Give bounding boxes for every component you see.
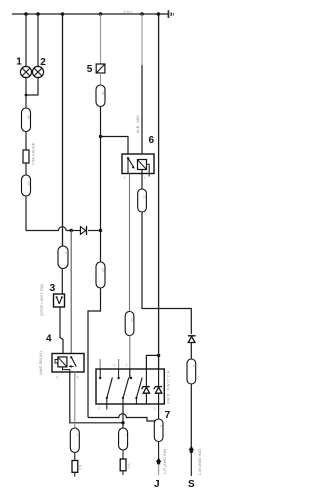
- svg-text:2 B: 2 B: [79, 464, 83, 470]
- arrow to J: [156, 458, 162, 462]
- svg-text:9: 9: [64, 252, 68, 254]
- svg-text:2: 2: [126, 364, 128, 368]
- wire relay6 coil drop gray part: [141, 14, 143, 65]
- svg-text:L-W (4WD IND): L-W (4WD IND): [198, 448, 202, 475]
- connector pill P5: [96, 262, 105, 288]
- connector pill P8 (J run): [154, 419, 163, 442]
- svg-text:5: 5: [77, 376, 79, 380]
- wire: [71, 230, 80, 232]
- wire: [158, 442, 160, 459]
- wire: [61, 269, 63, 295]
- node diode join: [99, 229, 102, 232]
- battery terminal symbol: [168, 10, 174, 18]
- svg-text:4: 4: [46, 334, 52, 345]
- svg-text:12: 12: [101, 268, 105, 272]
- svg-text:4: 4: [113, 364, 115, 368]
- wire diode run with hop over line3: [26, 227, 71, 231]
- wire: [25, 163, 27, 175]
- svg-text:2: 2: [40, 57, 46, 68]
- svg-text:2: 2: [144, 176, 146, 180]
- svg-text:5: 5: [87, 64, 93, 75]
- wire: [122, 450, 124, 459]
- svg-text:1: 1: [124, 176, 126, 180]
- svg-text:W-B , AM1: W-B , AM1: [136, 115, 140, 133]
- wire down to diode run: [25, 196, 27, 231]
- 4wd contact 2: [117, 369, 128, 404]
- svg-text:16: 16: [27, 115, 31, 119]
- node: relay coil tap: [140, 12, 144, 16]
- svg-text:(STOP LIGHT SW): (STOP LIGHT SW): [40, 283, 44, 316]
- svg-text:14: 14: [27, 181, 31, 185]
- diode D2: [188, 336, 196, 343]
- svg-text:7.5A GAUGE: 7.5A GAUGE: [32, 142, 36, 165]
- svg-text:8: 8: [192, 365, 196, 367]
- relay 6: [122, 154, 154, 177]
- wire: [122, 471, 124, 475]
- wire fuse5 drop (gray): [100, 14, 102, 64]
- svg-text:S: S: [188, 479, 195, 490]
- connector pill P4: [138, 189, 147, 212]
- wire lamp2 drop: [37, 14, 39, 67]
- svg-text:2: 2: [75, 434, 79, 436]
- svg-text:13: 13: [130, 318, 134, 322]
- svg-text:11: 11: [143, 195, 147, 199]
- node branch to relay6: [99, 135, 102, 138]
- wire: [74, 453, 76, 461]
- top power bus wire: [12, 13, 168, 15]
- connector pill P1: [22, 108, 31, 132]
- wire gray drop from diode-run node to relay4: [70, 231, 72, 358]
- svg-text:1: 1: [16, 56, 22, 67]
- wire long route to bottom J run: [88, 288, 101, 418]
- wire middle chain from 4wd box down: [122, 404, 124, 428]
- relay 4: [52, 354, 84, 373]
- wire relay4 left pin down and right: [70, 372, 122, 423]
- 4wd contact 1: [99, 369, 112, 410]
- wire relay6 coil bottom: [141, 170, 143, 190]
- svg-text:(4WD RELAY): (4WD RELAY): [39, 350, 43, 375]
- connector pill P10: [70, 428, 79, 453]
- svg-text:2 A: 2 A: [127, 463, 131, 469]
- wire switch feed vertical: [158, 14, 160, 369]
- connector pill P7: [125, 312, 134, 336]
- node: switch diode tap: [157, 12, 161, 16]
- node: fuse5 tap: [99, 12, 103, 16]
- svg-text:J: J: [154, 479, 160, 490]
- wire P7 to 4wd switch: [129, 336, 131, 379]
- svg-text:1: 1: [98, 406, 100, 410]
- node A junction on gray drop: [70, 229, 73, 232]
- connector pill P3: [96, 85, 105, 107]
- svg-text:L-R (4WD SW): L-R (4WD SW): [163, 448, 167, 474]
- fuse FC: [120, 459, 126, 471]
- wire lamp1 below: [25, 78, 27, 108]
- svg-text:3: 3: [56, 376, 58, 380]
- connector pill P11: [119, 428, 128, 450]
- svg-text:3: 3: [50, 283, 56, 294]
- node join middle chain: [121, 421, 124, 424]
- fuse 5 (square with diagonal): [96, 64, 105, 73]
- svg-text:10: 10: [101, 91, 105, 95]
- fuse FB: [72, 461, 78, 473]
- 4wd switch stub pin 1: [99, 359, 101, 369]
- svg-text:4WD SWITCH: 4WD SWITCH: [167, 370, 171, 404]
- wire: [190, 343, 192, 360]
- wire lamp1 drop: [25, 14, 27, 67]
- 4wd contact 3: [130, 369, 142, 404]
- switch 3 box: [54, 294, 65, 307]
- wire: [25, 132, 27, 151]
- wire: [190, 453, 192, 477]
- wire: [100, 231, 102, 263]
- wire branch to diode column 1: [146, 355, 158, 369]
- wire bottom run with hop: [88, 414, 156, 421]
- wire relay4 right pin down gray: [74, 372, 76, 428]
- wire: [100, 107, 102, 231]
- 4wd diode A: [142, 369, 150, 404]
- connector pill P9: [187, 359, 196, 384]
- wire line3 vertical: [62, 14, 64, 246]
- svg-text:7: 7: [124, 434, 128, 436]
- connector pill P2: [22, 175, 31, 196]
- svg-text:A M 1: A M 1: [124, 10, 133, 14]
- wire: [190, 384, 192, 447]
- wire from switch3 down with jog: [60, 307, 63, 354]
- svg-text:7: 7: [165, 410, 171, 421]
- 4WD switch box 7: [96, 369, 164, 404]
- wire relay6 contact pin down gray: [129, 174, 131, 312]
- arrow to S: [189, 446, 195, 450]
- node: lamp1 tap: [24, 12, 28, 16]
- node: lamp2 tap: [36, 12, 40, 16]
- wire relay6 to S diode: [142, 212, 191, 334]
- lamp 1: [20, 66, 31, 77]
- lamp 2: [32, 66, 43, 77]
- fuse F1: [23, 150, 29, 163]
- 4wd diode B: [154, 369, 162, 419]
- wire: [74, 472, 76, 476]
- wire relay6 coil drop black part: [141, 65, 143, 160]
- wire: [100, 73, 102, 85]
- wire lamp2 below joining lamp1 line: [26, 78, 38, 95]
- 4wd switch stub pin 2: [118, 359, 120, 369]
- wire: [158, 464, 160, 475]
- svg-text:2: 2: [154, 407, 156, 411]
- svg-text:5: 5: [159, 425, 163, 427]
- node: line3 tap: [61, 12, 65, 16]
- connector pill P6: [58, 246, 68, 269]
- wire: [88, 230, 101, 232]
- svg-text:6: 6: [149, 135, 155, 146]
- diode D1: [80, 226, 86, 235]
- node S-diode branch: [157, 354, 160, 357]
- wire branch to relay 6: [101, 137, 129, 155]
